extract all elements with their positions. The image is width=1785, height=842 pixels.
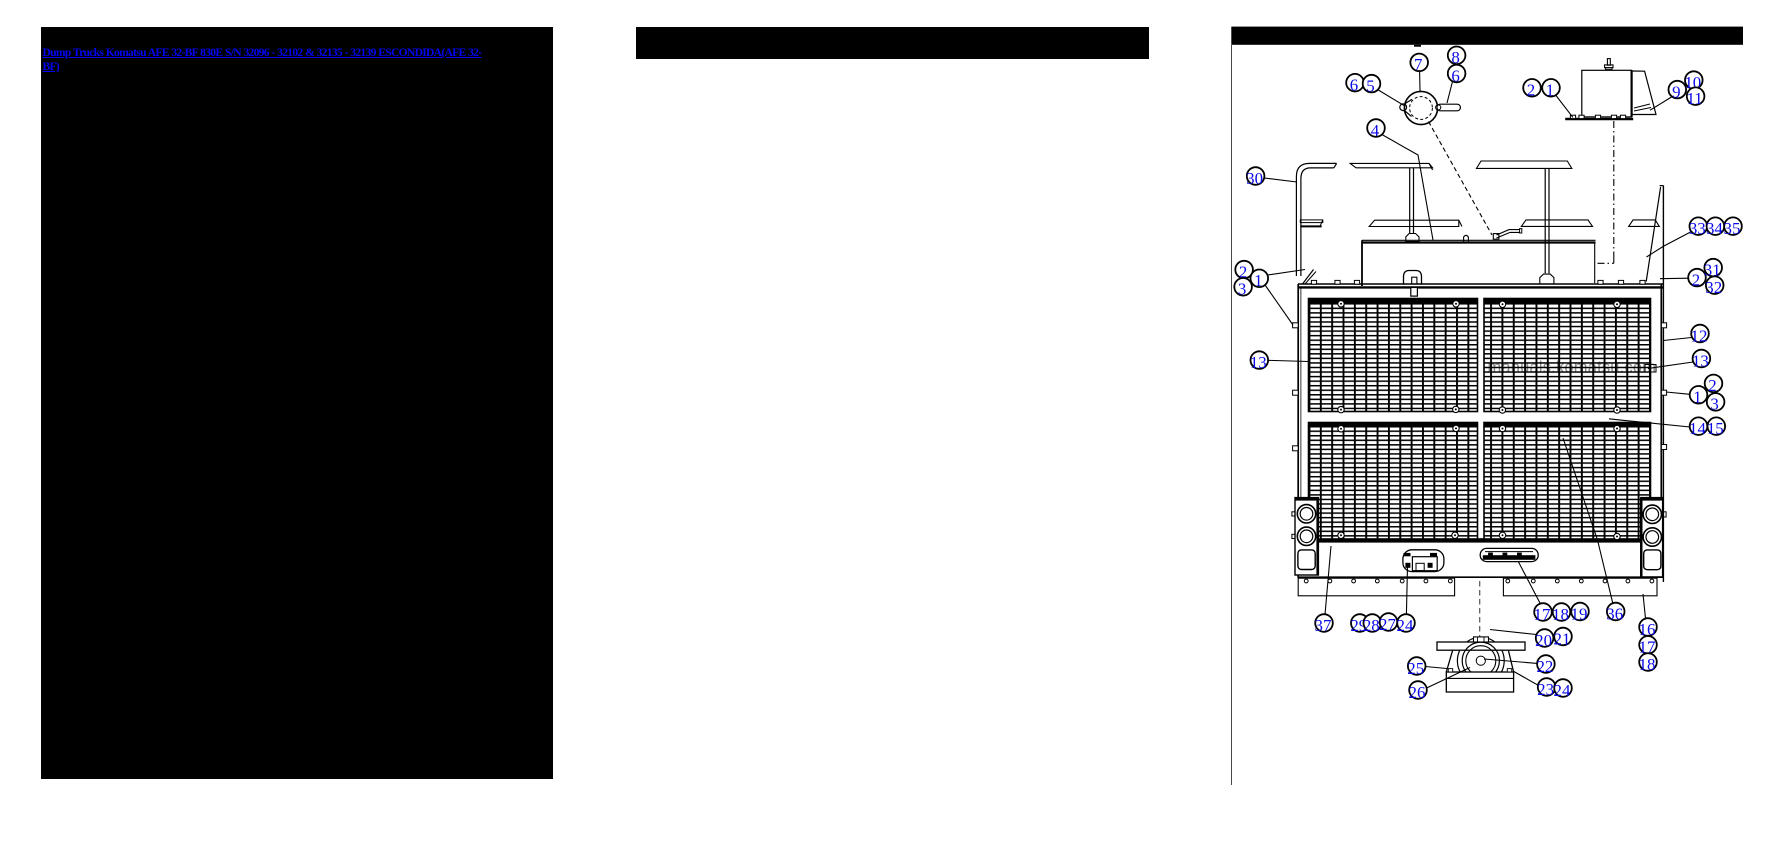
leader 5 (1378, 90, 1405, 106)
balloon 23 (1537, 678, 1555, 699)
mid rail segment C (1521, 220, 1592, 227)
balloon 37 (1315, 614, 1333, 635)
handrail post 2 (1409, 168, 1411, 234)
plate cap (1474, 637, 1489, 642)
bumper bottom edge (1298, 576, 1663, 578)
balloon 5 (1363, 75, 1381, 96)
svg-text:15: 15 (1707, 419, 1724, 438)
balloon 28 (1363, 614, 1381, 635)
filler spout with flip lever (1493, 234, 1499, 240)
mid rail segment B (1369, 220, 1459, 226)
diagram header bar (1231, 27, 1743, 45)
svg-text:5: 5 (1366, 76, 1374, 95)
svg-text:19: 19 (1571, 604, 1588, 623)
leader 24a (1406, 566, 1407, 615)
balloon 24 (1554, 679, 1572, 700)
balloon 12 (1691, 325, 1709, 346)
balloon 21 (1554, 628, 1572, 649)
svg-text:37: 37 (1315, 616, 1332, 635)
left light cluster (1295, 498, 1318, 575)
leader 7 (1419, 71, 1421, 91)
balloon 1 (1690, 386, 1708, 407)
small breather on tank top (1464, 235, 1469, 242)
balloon 9 (1669, 81, 1687, 102)
svg-text:7: 7 (1414, 55, 1422, 74)
balloon 19 (1571, 603, 1589, 624)
leader 1a (1556, 96, 1573, 118)
svg-text:12: 12 (1691, 326, 1708, 345)
balloon 25 (1407, 657, 1425, 678)
svg-text:22: 22 (1536, 657, 1553, 676)
svg-text:2: 2 (1527, 81, 1535, 100)
svg-text:1: 1 (1693, 388, 1701, 407)
svg-text:28: 28 (1363, 616, 1380, 635)
reservoir tank box (1582, 70, 1632, 117)
balloon 17 (1639, 636, 1657, 657)
handrail post 1 with curved top (1296, 163, 1336, 276)
svg-text:1: 1 (1254, 271, 1262, 290)
svg-text:26: 26 (1409, 683, 1426, 702)
balloon 34 (1706, 217, 1724, 238)
svg-text:24: 24 (1554, 681, 1571, 700)
balloon 35 (1724, 217, 1742, 238)
left catalog panel (black) with breadcrumb link (41, 27, 553, 780)
balloon 3 (1234, 278, 1252, 299)
leader 26 (1427, 668, 1470, 689)
balloon 13 (1250, 351, 1268, 372)
leader 12 (1663, 338, 1691, 341)
frame left edge (1297, 284, 1299, 578)
grille bottom band (1311, 538, 1640, 542)
leader 6b (1447, 82, 1453, 104)
dash-dot drop line from tank (1613, 121, 1615, 257)
svg-text:11: 11 (1686, 89, 1702, 108)
balloon 11 (1686, 87, 1704, 108)
balloon 18 (1639, 653, 1657, 674)
balloon 8 (1448, 47, 1466, 68)
frame top bolts (1311, 280, 1316, 284)
top rail segment 3 (1477, 161, 1572, 168)
leader 1b-1 (1268, 270, 1306, 276)
diagram column left border (1230, 45, 1232, 785)
radiator frame top edge (1298, 283, 1663, 285)
dashed centerline (1479, 581, 1481, 638)
bearing housing (1446, 650, 1513, 672)
svg-text:20: 20 (1535, 631, 1552, 650)
upper tank box (1362, 239, 1596, 241)
balloon 2 (1705, 375, 1723, 396)
right column: parts diagram (1231, 0, 1785, 842)
leader 14 (1609, 419, 1690, 427)
svg-text:18: 18 (1639, 655, 1656, 674)
svg-text:34: 34 (1706, 219, 1723, 238)
leader 2c (1660, 277, 1688, 280)
svg-text:23: 23 (1537, 680, 1554, 699)
leader 1b-2 (1264, 284, 1293, 326)
svg-text:30: 30 (1246, 169, 1263, 188)
svg-text:36: 36 (1606, 604, 1623, 623)
balloon 1 (1542, 79, 1560, 100)
frame right edge (1660, 284, 1662, 578)
balloon 31 (1704, 259, 1722, 280)
leader 1d (1666, 392, 1690, 394)
svg-text:13: 13 (1692, 351, 1709, 370)
bumper grab handle (1480, 548, 1538, 561)
balloon 2 (1523, 79, 1541, 100)
svg-text:4: 4 (1371, 121, 1380, 140)
leader 37 (1325, 546, 1331, 615)
leader 16 (1643, 594, 1646, 619)
svg-text:6: 6 (1350, 76, 1358, 95)
balloon 3 (1707, 393, 1725, 414)
balloon 36 (1606, 603, 1624, 624)
balloon 2 (1235, 261, 1253, 282)
svg-text:25: 25 (1407, 659, 1424, 678)
svg-text:35: 35 (1724, 219, 1741, 238)
svg-text:27: 27 (1379, 615, 1396, 634)
svg-text:1: 1 (1546, 81, 1554, 100)
balloon 24 (1397, 614, 1415, 635)
frame top center latch (1404, 271, 1422, 285)
grille mesh panels (1309, 299, 1478, 412)
leader 25 (1425, 667, 1447, 669)
pivot bearing (1457, 637, 1504, 684)
balloon 29 (1350, 614, 1368, 635)
tank top bolt (1607, 59, 1610, 66)
leader 4 (1381, 134, 1433, 240)
leader 22 (1484, 659, 1537, 663)
svg-text:21: 21 (1554, 629, 1571, 648)
leader 23 (1513, 671, 1538, 685)
frame side bolts (1293, 323, 1299, 328)
balloon 10 (1684, 71, 1702, 92)
svg-text:3: 3 (1238, 280, 1246, 299)
handrail post 3 (1544, 168, 1546, 273)
leader 17a (1518, 561, 1541, 604)
svg-text:3: 3 (1710, 395, 1718, 414)
tank base plate (1565, 118, 1633, 120)
balloon 15 (1707, 417, 1725, 438)
svg-text:24: 24 (1397, 616, 1414, 635)
balloon 27 (1379, 613, 1397, 634)
lower right flange (1503, 578, 1657, 596)
svg-text:18: 18 (1552, 605, 1569, 624)
svg-text:33: 33 (1689, 219, 1706, 238)
svg-text:9: 9 (1672, 82, 1680, 101)
balloon 4 (1367, 119, 1385, 140)
leader 33 (1647, 232, 1692, 258)
balloon 18 (1552, 603, 1570, 624)
post1 foot gusset (1303, 270, 1314, 285)
watermark clip box (1645, 365, 1656, 373)
svg-text:17: 17 (1534, 605, 1551, 624)
balloon 32 (1705, 276, 1723, 297)
balloon 33 (1689, 217, 1707, 238)
filler cap body (1404, 91, 1437, 124)
balloon 17 (1534, 603, 1552, 624)
balloon 30 (1246, 167, 1264, 188)
middle column header bar (636, 27, 1149, 59)
svg-text:2: 2 (1692, 270, 1700, 289)
balloon 7 (1410, 54, 1428, 75)
mid rail segment D (1629, 220, 1660, 227)
balloon 26 (1409, 681, 1427, 702)
balloon 13 (1692, 350, 1710, 371)
bearing plate (1437, 642, 1525, 650)
cap handle (1437, 104, 1460, 111)
balloon 16 (1639, 618, 1657, 639)
mid rail segment A (1300, 220, 1323, 223)
svg-text:14: 14 (1689, 419, 1706, 438)
right gusset (1646, 187, 1660, 282)
balloon 6 (1448, 65, 1466, 86)
leader 9 (1650, 97, 1672, 110)
balloon 1 (1251, 270, 1269, 291)
right light cluster (1641, 498, 1663, 577)
bearing rings (1462, 642, 1499, 679)
cap left ear (1400, 104, 1407, 111)
balloon 6 (1346, 74, 1364, 95)
balloon 22 (1536, 655, 1554, 676)
svg-text:6: 6 (1451, 66, 1459, 85)
svg-text:13: 13 (1250, 353, 1267, 372)
balloon 20 (1535, 629, 1553, 650)
leader 36 (1563, 438, 1613, 603)
balloon 2 (1688, 269, 1706, 290)
balloon 14 (1689, 417, 1707, 438)
lower left flange (1298, 578, 1454, 596)
tank mount bracket (1632, 71, 1656, 115)
panel corner bolts (1338, 301, 1344, 307)
leader 20 (1490, 630, 1536, 635)
handrail top rail segment 2 (1350, 163, 1432, 167)
bumper latch assembly (1403, 550, 1444, 572)
dashed leader from cap to spout (1429, 122, 1493, 236)
svg-text:32: 32 (1705, 278, 1722, 297)
leader 30 (1264, 178, 1297, 182)
leader 13r (1648, 362, 1693, 369)
leader 13l (1268, 360, 1309, 361)
